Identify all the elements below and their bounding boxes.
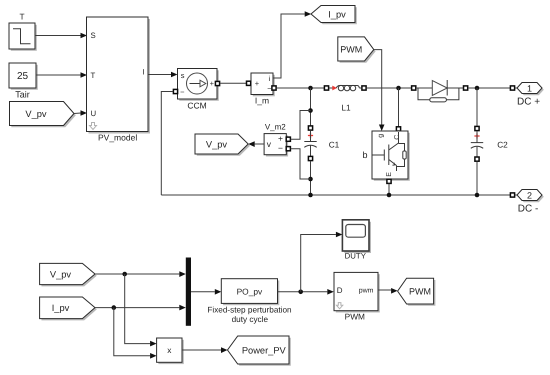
svg-text:V_pv: V_pv (50, 269, 72, 279)
inductor L1 (324, 85, 366, 112)
svg-text:PO_pv: PO_pv (237, 287, 263, 297)
svg-text:U: U (91, 109, 97, 118)
subsystem PV_model (87, 17, 151, 143)
controlled current source CCM (178, 69, 219, 111)
from tag V_pv (bottom) (40, 263, 97, 286)
port square IGBT E (387, 179, 391, 183)
node C1 top (308, 86, 313, 91)
node IGBT collector (396, 86, 401, 91)
wire i measurement up to I_pv tag (273, 14, 305, 78)
svg-text:−: − (180, 87, 185, 96)
svg-text:DC -: DC - (518, 203, 539, 214)
mux (186, 258, 191, 326)
output port DC+ (510, 83, 543, 108)
svg-text:V_pv: V_pv (206, 139, 228, 149)
wire top rail I_m- to L1 (276, 87, 324, 89)
goto tag V_pv (195, 134, 250, 156)
svg-text:S: S (91, 31, 96, 40)
capacitor C2 (471, 88, 508, 195)
port square CCM - (173, 89, 177, 93)
from tag V_pv (to U) (10, 102, 76, 128)
voltage measurement V_m2 (264, 122, 288, 156)
svg-text:CCM: CCM (187, 100, 206, 110)
svg-text:V_m2: V_m2 (265, 122, 286, 131)
wire PWM gate down to IGBT (374, 50, 382, 125)
wire CCM+ to I_m+ (220, 82, 247, 84)
from tag PWM (gate signal) (338, 37, 376, 63)
node C1 bottom (308, 193, 313, 198)
subsystem PO_pv (207, 279, 292, 324)
svg-text:PWM: PWM (345, 311, 365, 321)
wire V_m2 + to C1 (291, 111, 311, 140)
wire I_pv to mux (95, 307, 179, 309)
junction duty branch (298, 290, 303, 295)
scope DUTY (342, 220, 371, 260)
svg-text:b: b (362, 150, 367, 160)
wire I_pv branch to product (114, 308, 150, 356)
svg-text:E: E (386, 172, 393, 177)
svg-text:I: I (142, 68, 144, 77)
wire collector node down (398, 88, 400, 127)
wire I output (148, 74, 171, 76)
svg-text:g: g (377, 134, 384, 138)
svg-text:−: − (278, 143, 283, 153)
svg-text:I_pv: I_pv (52, 303, 70, 313)
svg-text:2: 2 (527, 191, 532, 201)
svg-text:Fixed-step perturbation: Fixed-step perturbation (207, 306, 292, 315)
wire step to S (35, 35, 81, 37)
svg-text:C1: C1 (329, 139, 340, 149)
step source T (9, 11, 37, 51)
current measurement I_m (251, 73, 275, 105)
svg-text:+: + (210, 79, 215, 88)
svg-text:T: T (91, 71, 96, 80)
svg-text:D: D (337, 286, 343, 295)
svg-text:v: v (267, 139, 272, 149)
svg-text:PWM: PWM (409, 286, 431, 296)
subsystem PWM (334, 272, 380, 321)
bottom rail (161, 194, 510, 196)
junction V_pv branch (122, 272, 127, 277)
svg-text:Power_PV: Power_PV (242, 345, 287, 355)
svg-text:duty cycle: duty cycle (232, 315, 269, 324)
svg-text:+: + (278, 134, 283, 144)
wire V_pv to U (74, 112, 81, 115)
goto tag Power_PV (228, 336, 291, 366)
node C2 top (475, 86, 480, 91)
port square I_m - (272, 86, 276, 90)
port square I_m + (247, 81, 251, 85)
wire V_pv branch to product (125, 274, 150, 344)
wire V_m2 - to C1 (291, 149, 311, 179)
port square IGBT C (396, 127, 400, 131)
diode D1 (412, 80, 468, 102)
svg-text:C: C (394, 135, 401, 140)
svg-text:T: T (19, 11, 24, 21)
goto tag PWM (398, 278, 436, 306)
svg-text:−: − (267, 84, 271, 93)
wire PO_pv to PWM (278, 291, 328, 293)
svg-text:C2: C2 (497, 139, 508, 149)
output port DC- (510, 190, 543, 215)
wire mux to PO_pv (191, 291, 215, 293)
wire pwm output to PWM tag (378, 289, 391, 291)
port square V_m2 + (286, 137, 290, 141)
node C2 bottom (475, 193, 480, 198)
svg-text:L1: L1 (341, 103, 351, 113)
svg-text:I_pv: I_pv (328, 9, 346, 19)
svg-text:I_m: I_m (255, 95, 269, 105)
svg-text:1: 1 (527, 84, 532, 94)
svg-text:V_pv: V_pv (25, 109, 47, 119)
wire 25 to T (36, 74, 81, 76)
svg-text:25: 25 (17, 71, 29, 82)
port square V_m2 - (286, 147, 290, 151)
svg-text:+: + (255, 79, 260, 88)
port square CCM + (215, 81, 219, 85)
goto tag I_pv (311, 6, 357, 25)
wire CCM- down to bottom rail (161, 92, 173, 196)
node IGBT E (387, 193, 392, 198)
wire duty branch to scope (301, 235, 336, 292)
capacitor C1 (304, 88, 339, 195)
wire IGBT E to bottom rail (388, 184, 390, 195)
wire product to Power_PV (182, 349, 221, 351)
svg-text:DUTY: DUTY (345, 251, 367, 260)
svg-text:PWM: PWM (340, 45, 362, 55)
constant Tair value 25 (9, 63, 38, 99)
junction I_pv branch (112, 305, 117, 310)
svg-text:pwm: pwm (359, 288, 374, 295)
svg-text:PV_model: PV_model (98, 133, 137, 143)
svg-text:Tair: Tair (15, 89, 30, 99)
svg-text:DC +: DC + (517, 96, 540, 107)
product block (157, 338, 184, 364)
wire V_m2 v to V_pv tag (255, 143, 264, 145)
svg-text:s: s (181, 71, 185, 80)
wire diode to DC+ (468, 87, 510, 89)
IGBT Q1 (372, 131, 410, 181)
wire L1 to diode (366, 87, 411, 89)
wire V_pv to mux (95, 273, 179, 275)
from tag I_pv (bottom) (40, 297, 97, 320)
